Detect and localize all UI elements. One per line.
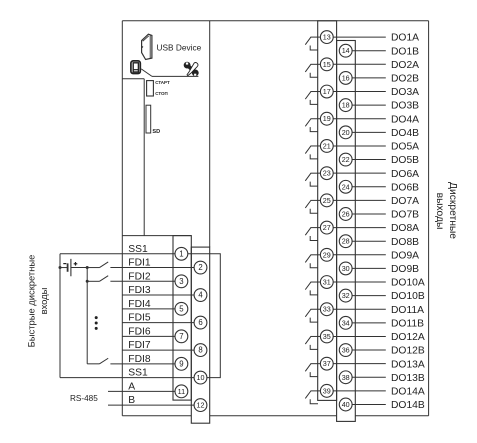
svg-text:DO13B: DO13B — [391, 373, 425, 384]
wire DO10A (terminal 31) — [333, 281, 386, 283]
terminal 40 (DO14B) — [339, 398, 352, 411]
wire DO9B (terminal 30) — [352, 267, 386, 269]
svg-text:DO7B: DO7B — [391, 210, 419, 221]
terminal 7 (FDI6) — [175, 330, 188, 343]
svg-text:34: 34 — [342, 318, 350, 327]
wire DO6A (terminal 23) — [333, 172, 386, 174]
terminal 12 (B) — [194, 399, 207, 412]
relay contact K5 — [305, 146, 320, 159]
svg-text:DO2A: DO2A — [391, 60, 419, 71]
wire DO11A (terminal 33) — [333, 308, 386, 310]
terminal 10 (SS1) — [194, 371, 207, 384]
svg-text:выходы: выходы — [434, 193, 445, 230]
wire FDI7 (terminal 8) — [122, 349, 194, 351]
terminal 32 (DO10B) — [339, 289, 352, 302]
relay contact K2 — [305, 64, 320, 77]
svg-text:DO3A: DO3A — [391, 87, 419, 98]
svg-text:FDI3: FDI3 — [128, 285, 151, 296]
svg-text:35: 35 — [323, 332, 331, 341]
terminal 3 (FDI2) — [175, 275, 188, 288]
wire DO5A (terminal 21) — [333, 145, 386, 147]
svg-text:12: 12 — [197, 401, 205, 410]
wire SS1 internal bus — [188, 254, 220, 378]
svg-text:DO6B: DO6B — [391, 182, 419, 193]
svg-text:SS1: SS1 — [128, 368, 148, 379]
svg-text:RS-485: RS-485 — [70, 394, 98, 403]
svg-text:DO9B: DO9B — [391, 264, 419, 275]
ellipsis dots (omitted switches) — [95, 316, 98, 319]
svg-text:DO4A: DO4A — [391, 114, 419, 125]
relay contact K11 — [305, 309, 320, 322]
svg-text:31: 31 — [323, 278, 331, 287]
USB connector icon — [142, 34, 152, 59]
wire FDI6 (terminal 7) — [122, 335, 175, 337]
svg-text:30: 30 — [342, 264, 350, 273]
wire external loop left vertical — [59, 254, 61, 378]
relay contact K14 — [305, 391, 320, 404]
svg-text:39: 39 — [323, 386, 331, 395]
terminal 14 (DO1B) — [339, 44, 352, 57]
right terminal block even column box — [337, 41, 356, 422]
svg-text:DO8B: DO8B — [391, 237, 419, 248]
svg-text:FDI2: FDI2 — [128, 271, 151, 282]
svg-text:DO6A: DO6A — [391, 169, 419, 180]
svg-text:23: 23 — [323, 169, 331, 178]
wire DO14B (terminal 40) — [352, 403, 386, 405]
wire module left edge — [121, 21, 123, 416]
switch icon (run/stop toggle) — [131, 61, 140, 74]
svg-text:FDI6: FDI6 — [128, 326, 151, 337]
svg-text:DO11B: DO11B — [391, 318, 424, 329]
wire DO7A (terminal 25) — [333, 199, 386, 201]
wire DO1A (terminal 13) — [333, 36, 386, 38]
wire inner step horizontal — [122, 78, 144, 80]
terminal 23 (DO6A) — [320, 167, 333, 180]
relay contact K9 — [305, 255, 320, 268]
svg-text:DO5A: DO5A — [391, 142, 419, 153]
terminal 36 (DO12B) — [339, 344, 352, 357]
left terminal block even column box — [191, 247, 209, 423]
svg-text:DO8A: DO8A — [391, 223, 419, 234]
start/stop button rectangle — [147, 81, 154, 96]
svg-text:8: 8 — [198, 346, 202, 355]
svg-text:16: 16 — [342, 73, 350, 82]
svg-text:FDI4: FDI4 — [128, 299, 151, 310]
wire icon shelf line — [152, 75, 198, 77]
svg-text:32: 32 — [342, 291, 350, 300]
wire DO3B (terminal 18) — [352, 104, 386, 106]
svg-text:19: 19 — [323, 114, 331, 123]
svg-text:11: 11 — [178, 387, 185, 396]
svg-text:DO9A: DO9A — [391, 250, 419, 261]
relay contact K4 — [305, 119, 320, 132]
wire DO9A (terminal 29) — [333, 254, 386, 256]
wire module bottom edge — [122, 415, 191, 417]
terminal 30 (DO9B) — [339, 262, 352, 275]
wire DO12A (terminal 35) — [333, 335, 386, 337]
wire DO2B (terminal 16) — [352, 77, 386, 79]
wire inner step vertical — [143, 79, 145, 236]
terminal 25 (DO7A) — [320, 194, 333, 207]
right terminal block odd column box — [318, 21, 337, 401]
svg-text:26: 26 — [342, 209, 350, 218]
terminal 15 (DO2A) — [320, 58, 333, 71]
wire DO2A (terminal 15) — [333, 63, 386, 65]
svg-text:FDI5: FDI5 — [128, 313, 151, 324]
terminal 37 (DO13A) — [320, 357, 333, 370]
terminal 6 (FDI5) — [194, 316, 207, 329]
svg-text:37: 37 — [323, 359, 331, 368]
wire FDI4 (terminal 5) — [122, 308, 175, 310]
svg-text:6: 6 — [198, 318, 202, 327]
svg-text:DO7A: DO7A — [391, 196, 419, 207]
wire A (terminal 11) — [108, 390, 175, 392]
wire left panel separator — [209, 21, 211, 247]
svg-text:DO13A: DO13A — [391, 359, 425, 370]
svg-text:СТАРТ: СТАРТ — [155, 80, 170, 85]
switch contact S1 (FDI1) — [87, 262, 108, 268]
wire DO11B (terminal 34) — [352, 322, 386, 324]
terminal 18 (DO3B) — [339, 99, 352, 112]
wire FDI1 (terminal 2) — [110, 267, 194, 269]
switch contact S2 (FDI2) — [87, 276, 108, 282]
terminal 17 (DO3A) — [320, 85, 333, 98]
svg-text:17: 17 — [323, 87, 331, 96]
wire DO14A (terminal 39) — [333, 390, 386, 392]
terminal 39 (DO14A) — [320, 384, 333, 397]
wire DO4A (terminal 19) — [333, 118, 386, 120]
svg-text:9: 9 — [179, 359, 183, 368]
svg-text:DO1A: DO1A — [391, 33, 419, 44]
relay contact K6 — [305, 173, 320, 186]
svg-text:3: 3 — [179, 277, 183, 286]
svg-text:33: 33 — [323, 305, 331, 314]
node switch bus junction — [86, 266, 89, 269]
label battery minus — [63, 263, 66, 265]
svg-text:5: 5 — [179, 304, 184, 313]
terminal 19 (DO4A) — [320, 112, 333, 125]
terminal 31 (DO10A) — [320, 276, 333, 289]
svg-text:FDI1: FDI1 — [128, 258, 151, 269]
svg-text:1: 1 — [179, 249, 183, 258]
wire DO3A (terminal 17) — [333, 91, 386, 93]
terminal 13 (DO1A) — [320, 31, 333, 44]
svg-text:DO4B: DO4B — [391, 128, 419, 139]
label battery plus — [74, 263, 78, 265]
svg-text:28: 28 — [342, 237, 350, 246]
terminal 29 (DO9A) — [320, 248, 333, 261]
terminal 38 (DO13B) — [339, 371, 352, 384]
terminal 33 (DO11A) — [320, 303, 333, 316]
wire DO4B (terminal 20) — [352, 131, 386, 133]
svg-text:входы: входы — [38, 287, 49, 314]
terminal 9 (FDI8) — [175, 357, 188, 370]
svg-text:2: 2 — [198, 263, 202, 272]
wire DO8B (terminal 28) — [352, 240, 386, 242]
svg-text:DO12B: DO12B — [391, 346, 425, 357]
wire SS1 bottom (terminal 10) — [60, 377, 194, 379]
svg-text:FDI8: FDI8 — [128, 354, 151, 365]
terminal 2 (FDI1) — [194, 261, 207, 274]
svg-text:21: 21 — [323, 141, 331, 150]
wire FDI5 (terminal 6) — [122, 322, 194, 324]
wire FDI2 (terminal 3) — [110, 280, 175, 282]
wire SS1 top (terminal 1) — [60, 253, 175, 255]
switch contact S8 (FDI8) — [87, 358, 108, 364]
node battery tap junction — [59, 266, 62, 269]
svg-text:24: 24 — [342, 182, 350, 191]
svg-text:B: B — [128, 395, 135, 406]
terminal 8 (FDI7) — [194, 344, 207, 357]
svg-text:DO14A: DO14A — [391, 386, 425, 397]
terminal 4 (FDI3) — [194, 289, 207, 302]
terminal 24 (DO6B) — [339, 180, 352, 193]
wire DO6B (terminal 24) — [352, 186, 386, 188]
svg-text:Быстрые дискретные: Быстрые дискретные — [25, 255, 36, 348]
svg-text:13: 13 — [323, 33, 331, 42]
svg-text:25: 25 — [323, 196, 331, 205]
wire DO13B (terminal 38) — [352, 376, 386, 378]
wire DO10B (terminal 32) — [352, 295, 386, 297]
svg-text:СТОП: СТОП — [155, 91, 168, 96]
wire DO5B (terminal 22) — [352, 159, 386, 161]
wire DO8A (terminal 27) — [333, 227, 386, 229]
svg-text:18: 18 — [342, 101, 350, 110]
wire switch bus vertical — [86, 268, 88, 364]
svg-text:36: 36 — [342, 346, 350, 355]
svg-text:14: 14 — [342, 46, 350, 55]
terminal 16 (DO2B) — [339, 72, 352, 85]
svg-text:DO2B: DO2B — [391, 74, 419, 85]
svg-text:DO14B: DO14B — [391, 400, 425, 411]
node FDI2 branch junction — [86, 280, 89, 283]
wire switch leader diagonal — [141, 69, 152, 77]
terminal 5 (FDI4) — [175, 302, 188, 315]
battery B1 — [60, 259, 87, 276]
terminal 28 (DO8B) — [339, 235, 352, 248]
terminal 11 (A) — [175, 385, 188, 398]
relay contact K10 — [305, 282, 320, 295]
terminal 35 (DO12A) — [320, 330, 333, 343]
terminal 34 (DO11B) — [339, 316, 352, 329]
svg-text:SS1: SS1 — [128, 244, 148, 255]
svg-text:15: 15 — [323, 60, 331, 69]
wire DO12B (terminal 36) — [352, 349, 386, 351]
SD card slot rectangle — [146, 105, 151, 133]
svg-text:27: 27 — [323, 223, 331, 232]
svg-text:A: A — [128, 381, 135, 392]
relay contact K7 — [305, 200, 320, 213]
svg-text:4: 4 — [198, 291, 203, 300]
terminal 22 (DO5B) — [339, 153, 352, 166]
svg-text:38: 38 — [342, 373, 350, 382]
relay contact K12 — [305, 336, 320, 349]
wire DO13A (terminal 37) — [333, 363, 386, 365]
svg-text:SD: SD — [152, 129, 160, 135]
svg-text:DO10B: DO10B — [391, 291, 425, 302]
svg-text:Дискретные: Дискретные — [447, 182, 458, 239]
svg-text:10: 10 — [197, 373, 205, 382]
svg-text:DO5B: DO5B — [391, 155, 419, 166]
left terminal block odd column box — [173, 236, 191, 401]
svg-text:40: 40 — [342, 400, 350, 409]
terminal 21 (DO5A) — [320, 140, 333, 153]
wire rows box top separator — [122, 235, 191, 237]
svg-text:DO12A: DO12A — [391, 332, 425, 343]
terminal 27 (DO8A) — [320, 221, 333, 234]
wire DO7B (terminal 26) — [352, 213, 386, 215]
svg-text:22: 22 — [342, 155, 350, 164]
terminal 1 (SS1) — [175, 247, 188, 260]
wire B (terminal 12) — [108, 404, 194, 406]
svg-text:20: 20 — [342, 128, 350, 137]
relay contact K13 — [305, 364, 320, 377]
wire module top edge — [122, 20, 428, 22]
wire FDI8 (terminal 9) — [110, 363, 175, 365]
terminal 20 (DO4B) — [339, 126, 352, 139]
terminal 26 (DO7B) — [339, 208, 352, 221]
svg-text:DO10A: DO10A — [391, 278, 425, 289]
relay contact K1 — [305, 37, 320, 50]
svg-text:DO11A: DO11A — [391, 305, 424, 316]
wire module right edge — [428, 21, 430, 416]
svg-text:DO3B: DO3B — [391, 101, 419, 112]
wire FDI3 (terminal 4) — [122, 294, 194, 296]
service icon (crossed screwdriver and wrench) — [184, 62, 199, 77]
svg-text:USB Device: USB Device — [157, 43, 202, 53]
svg-text:DO1B: DO1B — [391, 46, 419, 57]
relay contact K8 — [305, 228, 320, 241]
svg-text:7: 7 — [179, 332, 183, 341]
svg-text:29: 29 — [323, 250, 331, 259]
svg-text:FDI7: FDI7 — [128, 340, 151, 351]
wire DO1B (terminal 14) — [352, 50, 386, 52]
relay contact K3 — [305, 92, 320, 105]
